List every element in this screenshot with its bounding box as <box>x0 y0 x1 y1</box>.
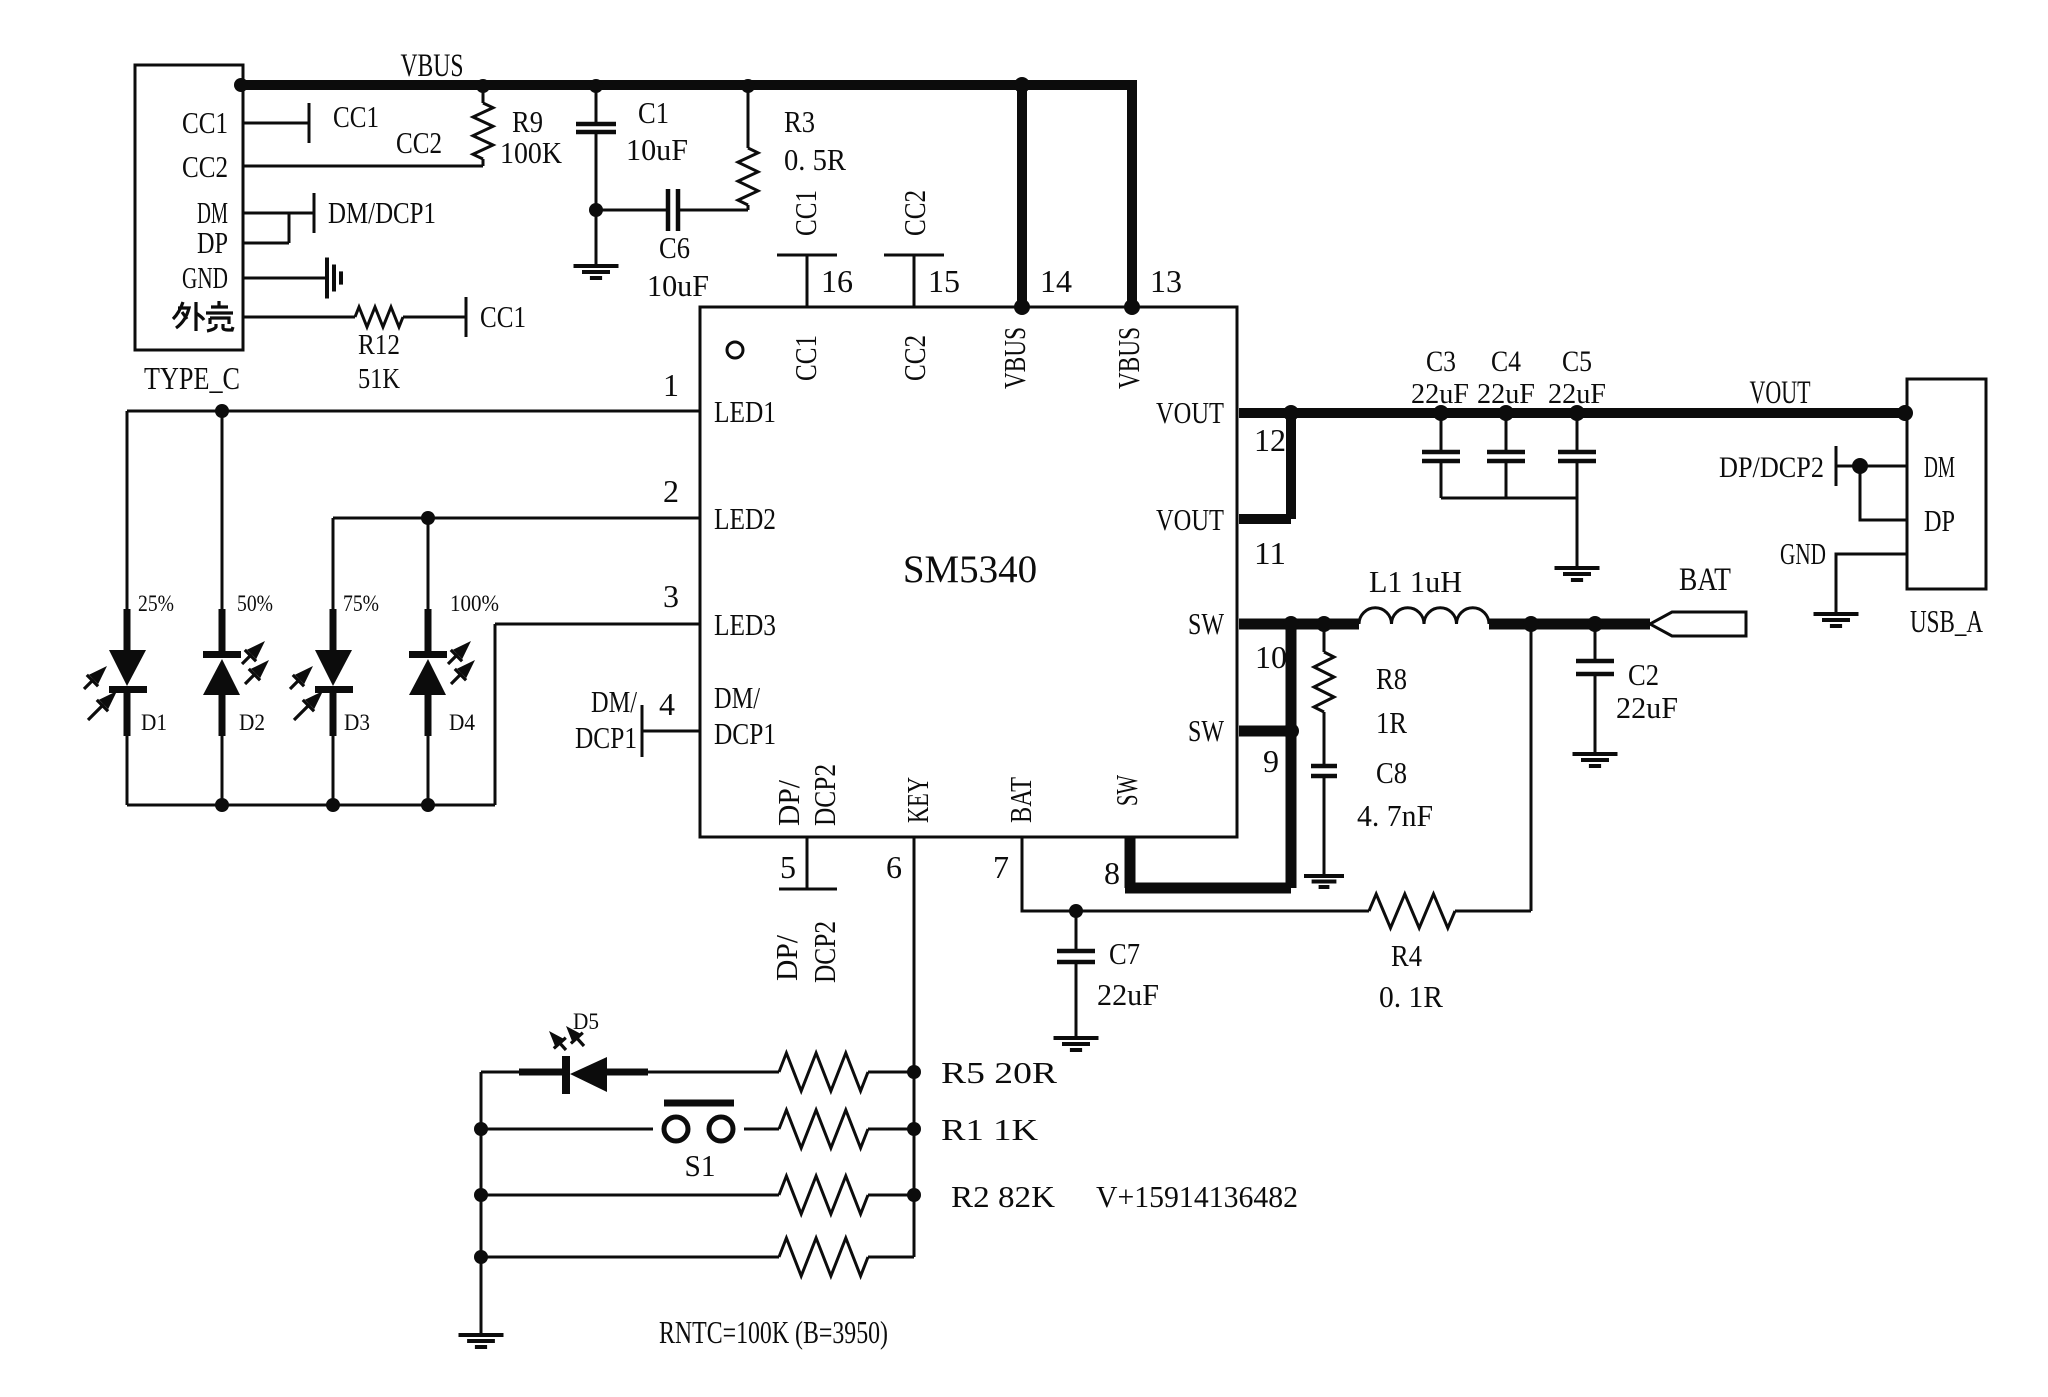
wire LED2 (pin 2) <box>333 517 700 520</box>
resistor R12 <box>355 307 403 327</box>
ground (C8) <box>1304 876 1344 887</box>
svg-text:R1 1K: R1 1K <box>941 1112 1039 1147</box>
svg-text:C4: C4 <box>1491 345 1521 378</box>
svg-text:4. 7nF: 4. 7nF <box>1357 798 1433 833</box>
capacitor C5 <box>1558 418 1596 498</box>
wire SW (pins 9,10) <box>1239 624 1650 888</box>
svg-text:C1: C1 <box>638 95 669 130</box>
wire key left rail <box>480 1072 483 1335</box>
svg-text:BAT: BAT <box>1003 777 1038 823</box>
svg-text:8: 8 <box>1104 855 1120 891</box>
resistor R9 <box>473 90 493 166</box>
svg-text:10: 10 <box>1255 639 1287 675</box>
svg-text:DP: DP <box>197 225 228 260</box>
svg-text:SM5340: SM5340 <box>903 548 1037 591</box>
connector USB_A <box>1907 379 1986 589</box>
junction dots on VBUS <box>234 77 1140 315</box>
svg-text:SW: SW <box>1109 775 1144 806</box>
svg-text:USB_A: USB_A <box>1910 603 1983 639</box>
svg-text:CC2: CC2 <box>897 190 932 236</box>
wire KEY (pin 6) <box>913 837 916 1257</box>
svg-text:C3: C3 <box>1426 345 1456 378</box>
svg-text:CC1: CC1 <box>788 190 823 236</box>
svg-text:KEY: KEY <box>900 777 935 823</box>
svg-text:R3: R3 <box>784 104 815 139</box>
svg-text:0. 1R: 0. 1R <box>1379 979 1443 1014</box>
wire RNTC row <box>481 1256 914 1259</box>
svg-text:15: 15 <box>928 263 960 299</box>
svg-text:VOUT: VOUT <box>1156 502 1224 537</box>
svg-text:3: 3 <box>663 578 679 614</box>
svg-text:100K: 100K <box>500 135 563 170</box>
svg-text:R4: R4 <box>1391 938 1422 973</box>
junction dots SW <box>1283 616 1603 739</box>
svg-text:SW: SW <box>1188 713 1225 748</box>
wire R2 row <box>481 1194 914 1197</box>
terminal BAT flag <box>1650 612 1746 636</box>
svg-text:25%: 25% <box>138 591 174 616</box>
svg-text:LED1: LED1 <box>714 394 776 429</box>
LED D5 <box>481 1026 779 1094</box>
svg-text:0. 5R: 0. 5R <box>784 142 846 177</box>
svg-text:5: 5 <box>780 849 796 885</box>
ground (USB_A) <box>1814 614 1859 626</box>
svg-text:9: 9 <box>1263 743 1279 779</box>
svg-text:50%: 50% <box>237 591 273 616</box>
svg-text:CC1: CC1 <box>333 99 379 134</box>
wire CC2 from TYPE_C to R9 <box>243 165 483 168</box>
svg-text:CC2: CC2 <box>396 125 442 160</box>
ground (TYPE_C GND) <box>327 258 341 299</box>
svg-text:RNTC=100K (B=3950): RNTC=100K (B=3950) <box>659 1314 888 1350</box>
svg-text:VOUT: VOUT <box>1156 395 1224 430</box>
svg-text:R2 82K: R2 82K <box>951 1179 1056 1214</box>
svg-text:SW: SW <box>1188 606 1225 641</box>
ground (C7) <box>1054 1038 1099 1050</box>
resistor RNTC <box>779 1238 868 1276</box>
svg-text:D1: D1 <box>141 710 167 735</box>
svg-text:V+15914136482: V+15914136482 <box>1096 1179 1298 1214</box>
svg-text:C6: C6 <box>659 230 690 265</box>
capacitor C7 <box>1057 911 1095 1038</box>
wire USB GND <box>1836 554 1907 614</box>
svg-text:DCP1: DCP1 <box>575 720 637 755</box>
svg-text:VBUS: VBUS <box>1111 327 1146 389</box>
svg-text:C5: C5 <box>1562 345 1592 378</box>
svg-text:10uF: 10uF <box>626 132 688 167</box>
wire LED3 (pin 3) <box>495 624 700 805</box>
wire pin5 DP/DCP2 stub <box>779 837 837 889</box>
svg-text:VBUS: VBUS <box>997 327 1032 389</box>
LED D3 <box>290 518 353 805</box>
ground (C1) <box>574 210 619 278</box>
resistor R3 <box>738 90 758 210</box>
svg-text:22uF: 22uF <box>1548 378 1606 410</box>
wire BAT (pin 7) <box>1022 624 1531 911</box>
junction C1/C6 <box>589 203 603 217</box>
svg-text:DP/DCP2: DP/DCP2 <box>1719 451 1824 484</box>
pin numbers <box>659 263 1287 891</box>
svg-text:DCP2: DCP2 <box>807 921 842 983</box>
svg-text:D3: D3 <box>344 710 370 735</box>
svg-text:DCP1: DCP1 <box>714 716 776 751</box>
wire LED1 (pin 1) <box>127 410 700 413</box>
resistor R8 <box>1314 624 1334 764</box>
svg-text:DM/: DM/ <box>591 684 637 719</box>
svg-text:CC2: CC2 <box>897 335 932 381</box>
svg-text:DCP2: DCP2 <box>807 764 842 826</box>
svg-text:16: 16 <box>821 263 853 299</box>
svg-text:22uF: 22uF <box>1097 977 1159 1012</box>
svg-text:DP/: DP/ <box>771 780 806 826</box>
pin 15 CC2 stub <box>884 255 944 307</box>
LED D1 <box>84 411 147 805</box>
svg-text:D2: D2 <box>239 710 265 735</box>
svg-text:D5: D5 <box>573 1009 599 1034</box>
svg-text:DP/: DP/ <box>769 935 804 981</box>
svg-text:75%: 75% <box>343 591 379 616</box>
svg-text:C7: C7 <box>1109 936 1140 971</box>
svg-text:L1 1uH: L1 1uH <box>1369 564 1462 599</box>
inductor L1 <box>1359 608 1489 624</box>
svg-text:22uF: 22uF <box>1411 378 1469 410</box>
capacitor C8 <box>1311 766 1337 876</box>
svg-text:4: 4 <box>659 686 675 722</box>
wire GND from TYPE_C <box>243 277 327 280</box>
junction C7 <box>1069 904 1083 918</box>
resistor R5 <box>779 1053 914 1091</box>
LED D2 <box>203 411 269 805</box>
wire VOUT bus (pins 11,12) <box>1239 413 1905 519</box>
svg-text:22uF: 22uF <box>1616 690 1678 725</box>
LED D4 <box>409 518 475 805</box>
junction dots VOUT <box>1283 405 1913 421</box>
wire pin4 DM/DCP1 <box>642 705 700 757</box>
switch S1 <box>664 1103 734 1141</box>
svg-text:22uF: 22uF <box>1477 378 1535 410</box>
svg-text:LED3: LED3 <box>714 607 776 642</box>
capacitor C4 <box>1487 418 1525 498</box>
svg-text:CC1: CC1 <box>182 105 228 140</box>
svg-text:CC2: CC2 <box>182 149 228 184</box>
wire shell pin <box>243 297 466 337</box>
wire CC1 from TYPE_C <box>243 103 309 143</box>
svg-text:CC1: CC1 <box>788 335 823 381</box>
svg-text:VOUT: VOUT <box>1750 375 1811 411</box>
capacitor C2 <box>1576 624 1614 754</box>
wire DM/DP tie <box>243 193 314 243</box>
svg-text:100%: 100% <box>450 591 499 616</box>
wire S1 row <box>481 1128 914 1131</box>
pin 16 CC1 stub <box>777 255 837 307</box>
connector TYPE_C <box>135 65 243 350</box>
svg-text:BAT: BAT <box>1679 562 1731 598</box>
ground (rail) <box>459 1335 504 1347</box>
svg-text:14: 14 <box>1040 263 1072 299</box>
wire C3-C5 bottoms <box>1441 498 1577 568</box>
svg-text:51K: 51K <box>358 364 400 395</box>
svg-text:DM: DM <box>1924 449 1955 484</box>
svg-text:LED2: LED2 <box>714 501 776 536</box>
ground (C2) <box>1573 754 1618 766</box>
resistor R2 <box>779 1176 868 1214</box>
svg-text:R12: R12 <box>358 330 400 361</box>
pin labels inside IC <box>714 327 1225 826</box>
svg-text:DM/DCP1: DM/DCP1 <box>328 195 436 230</box>
svg-text:S1: S1 <box>685 1148 716 1183</box>
svg-text:DP: DP <box>1924 503 1955 538</box>
svg-text:2: 2 <box>663 473 679 509</box>
svg-text:GND: GND <box>182 260 228 295</box>
svg-text:DM/: DM/ <box>714 680 760 715</box>
svg-text:6: 6 <box>886 849 902 885</box>
ground (C5) <box>1555 568 1600 580</box>
op-amp U1 SM5340 IC body <box>700 307 1237 837</box>
svg-text:VBUS: VBUS <box>401 48 464 84</box>
svg-text:R8: R8 <box>1376 661 1407 696</box>
capacitor C1 <box>576 90 616 210</box>
wire DP/DCP2 to USB <box>1836 446 1907 520</box>
svg-text:1R: 1R <box>1376 705 1407 740</box>
wire LED bottom bus <box>127 804 495 807</box>
svg-text:R5 20R: R5 20R <box>941 1055 1057 1090</box>
capacitor C3 <box>1422 418 1460 498</box>
wire SW pin 8 <box>1125 837 1291 888</box>
svg-text:13: 13 <box>1150 263 1182 299</box>
svg-text:R9: R9 <box>512 104 543 139</box>
svg-text:7: 7 <box>993 849 1009 885</box>
svg-text:C8: C8 <box>1376 755 1407 790</box>
svg-text:D4: D4 <box>449 710 475 735</box>
svg-text:12: 12 <box>1254 422 1286 458</box>
junction dots LED rows <box>215 404 435 812</box>
svg-text:10uF: 10uF <box>647 268 709 303</box>
svg-text:1: 1 <box>663 367 679 403</box>
svg-text:GND: GND <box>1780 536 1826 571</box>
resistor R4 <box>1369 894 1455 928</box>
svg-text:TYPE_C: TYPE_C <box>144 360 240 396</box>
capacitor C6 <box>596 189 748 231</box>
svg-text:11: 11 <box>1254 535 1286 571</box>
svg-text:CC1: CC1 <box>480 299 526 334</box>
resistor R1 <box>779 1110 868 1148</box>
wire VBUS bus <box>240 85 1137 307</box>
svg-text:C2: C2 <box>1628 657 1659 692</box>
